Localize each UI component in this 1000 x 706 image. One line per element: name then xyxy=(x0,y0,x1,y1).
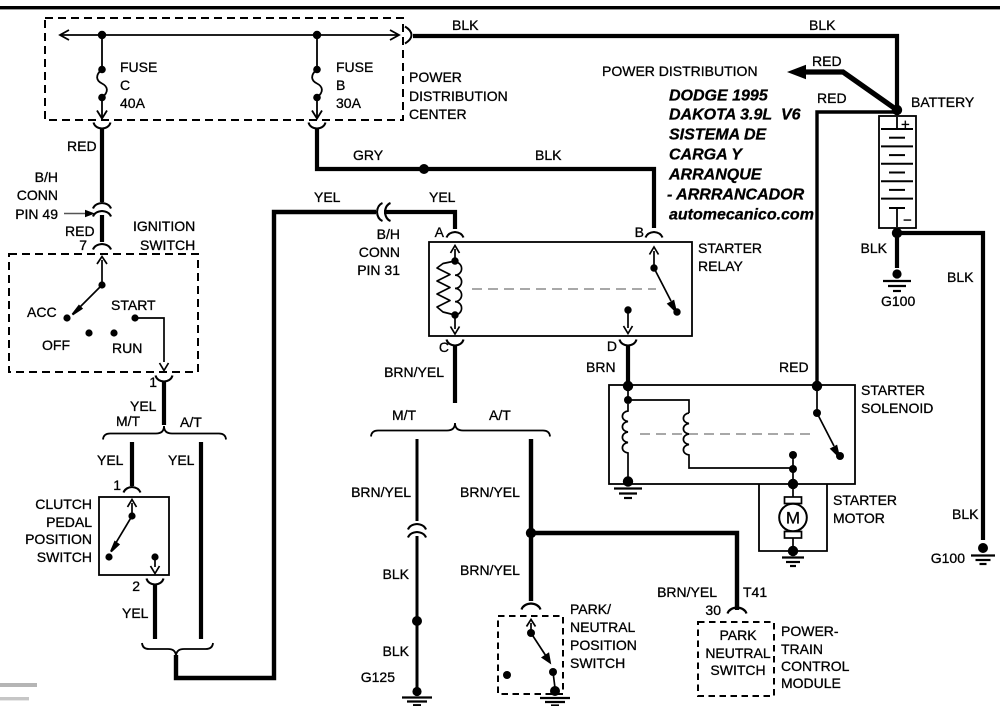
ground G100 right xyxy=(971,543,995,564)
clutch switch internals xyxy=(114,500,160,574)
svg-text:B/H: B/H xyxy=(377,226,400,242)
ground G125 xyxy=(402,687,432,705)
svg-text:BLK: BLK xyxy=(952,506,979,522)
svg-text:RUN: RUN xyxy=(112,340,142,356)
svg-text:G125: G125 xyxy=(361,669,395,685)
wire BLK PDC to battery xyxy=(413,36,897,106)
svg-text:START: START xyxy=(111,297,156,313)
connector ignition pin 7 xyxy=(93,244,111,250)
node solenoid inner top xyxy=(624,396,632,404)
top border line xyxy=(0,6,1000,9)
relay coil arrows xyxy=(451,246,460,335)
svg-text:CONN: CONN xyxy=(17,187,58,203)
svg-text:C: C xyxy=(120,77,130,93)
svg-text:BLK: BLK xyxy=(383,643,410,659)
wire BLK battery to G100 xyxy=(895,237,899,268)
svg-text:POWER: POWER xyxy=(409,69,462,85)
svg-text:STARTER: STARTER xyxy=(861,382,925,398)
wire BLK M/T middle branch xyxy=(416,439,419,521)
wire YEL pin 2 down xyxy=(153,585,157,639)
svg-text:POSITION: POSITION xyxy=(25,531,92,547)
node fuse B tap xyxy=(313,31,321,39)
ground PNP switch xyxy=(540,686,570,706)
wire BRN/YEL relay pin C down xyxy=(453,345,457,403)
node solenoid output junction xyxy=(789,465,797,473)
svg-text:CONN: CONN xyxy=(359,244,400,260)
svg-text:BRN/YEL: BRN/YEL xyxy=(657,584,717,600)
node PNP pivot xyxy=(527,629,535,637)
node BRN entry xyxy=(623,381,633,391)
wire YEL A/T branch xyxy=(199,442,203,639)
svg-text:SOLENOID: SOLENOID xyxy=(861,400,933,416)
svg-text:BLK: BLK xyxy=(452,17,479,33)
starter relay box xyxy=(429,242,692,336)
arrow to PIN 49 xyxy=(64,213,86,215)
node solenoid contact xyxy=(789,451,797,459)
svg-text:DISTRIBUTION: DISTRIBUTION xyxy=(409,88,508,104)
svg-text:BRN/YEL: BRN/YEL xyxy=(351,484,411,500)
inductor solenoid coil 1 xyxy=(622,404,628,478)
fuse C 40A xyxy=(97,39,107,119)
relay arm arrowhead xyxy=(668,301,676,312)
node relay coil top xyxy=(451,257,458,264)
svg-text:BRN/YEL: BRN/YEL xyxy=(460,484,520,500)
svg-text:40A: 40A xyxy=(120,95,146,111)
connector relay pin B xyxy=(646,232,663,238)
node motor ground xyxy=(788,546,798,556)
node START xyxy=(131,314,138,321)
svg-text:CENTER: CENTER xyxy=(409,106,467,122)
wire START to pin 1 xyxy=(135,318,164,362)
svg-text:SWITCH: SWITCH xyxy=(710,662,765,678)
relay switch arm xyxy=(624,247,672,334)
svg-text:DAKOTA 3.9L V6: DAKOTA 3.9L V6 xyxy=(669,107,801,124)
connector clutch pin 1 xyxy=(124,487,141,493)
svg-text:SWITCH: SWITCH xyxy=(570,655,625,671)
battery xyxy=(879,116,916,228)
svg-text:YEL: YEL xyxy=(314,189,341,205)
clutch pedal position switch box xyxy=(99,497,169,575)
svg-text:NEUTRAL: NEUTRAL xyxy=(570,619,636,635)
svg-text:D: D xyxy=(607,338,617,354)
wire BLK battery to right G100 xyxy=(900,233,983,540)
wire BRN/YEL junction to T41 xyxy=(531,533,737,610)
connector relay pin C xyxy=(447,340,464,346)
connector M/T inline xyxy=(408,524,426,538)
clutch arm arrowhead xyxy=(111,542,119,552)
motor M xyxy=(779,484,807,549)
solenoid switch xyxy=(793,386,834,484)
power distribution center box xyxy=(45,18,403,120)
svg-text:OFF: OFF xyxy=(42,337,70,353)
node clutch contact right xyxy=(151,553,158,560)
svg-text:BLK: BLK xyxy=(383,566,410,582)
node clutch contact left xyxy=(105,553,112,560)
solenoid arm arrowhead xyxy=(831,446,839,457)
svg-text:T41: T41 xyxy=(743,584,767,600)
svg-text:M/T: M/T xyxy=(116,413,141,429)
svg-text:NEUTRAL: NEUTRAL xyxy=(705,645,771,661)
connector B/H CONN PIN 31 xyxy=(377,203,391,221)
PNP switch internals xyxy=(527,620,556,689)
connector ignition pin 1 xyxy=(156,376,173,382)
svg-text:BLK: BLK xyxy=(861,240,888,256)
ground solenoid xyxy=(614,489,642,499)
park/neutral position switch box xyxy=(498,616,563,694)
svg-text:GRY: GRY xyxy=(353,147,384,163)
svg-text:MODULE: MODULE xyxy=(781,675,841,691)
svg-text:YEL: YEL xyxy=(130,398,157,414)
connector fuse C output xyxy=(94,123,111,129)
node A/T junction xyxy=(526,528,536,538)
wire solenoid internal top xyxy=(628,386,689,413)
svg-text:1: 1 xyxy=(149,374,157,390)
svg-text:RELAY: RELAY xyxy=(698,258,744,274)
brace M/T A/T split middle xyxy=(371,423,550,437)
wire YEL conn31 to relay pin A xyxy=(384,212,455,229)
svg-text:M/T: M/T xyxy=(392,407,417,423)
node solenoid output xyxy=(788,479,798,489)
node BLK splice xyxy=(412,616,422,626)
svg-text:YEL: YEL xyxy=(429,189,456,205)
svg-text:30: 30 xyxy=(705,602,721,618)
svg-text:FUSE: FUSE xyxy=(120,59,157,75)
node PNP contact right xyxy=(549,668,557,676)
wire RED fuse C down xyxy=(100,129,104,202)
svg-text:BRN/YEL: BRN/YEL xyxy=(384,364,444,380)
svg-text:RED: RED xyxy=(812,53,842,69)
svg-text:BLK: BLK xyxy=(809,17,836,33)
svg-text:STARTER: STARTER xyxy=(833,492,897,508)
svg-text:1: 1 xyxy=(113,477,121,493)
svg-text:POSITION: POSITION xyxy=(570,637,637,653)
svg-text:automecanico.com: automecanico.com xyxy=(669,207,814,224)
ground G100 battery xyxy=(883,269,911,291)
svg-text:A/T: A/T xyxy=(180,414,202,430)
connector relay pin A xyxy=(447,232,464,238)
svg-text:YEL: YEL xyxy=(122,605,149,621)
inductor solenoid coil 2 xyxy=(683,413,793,468)
connector B/H CONN PIN 49 xyxy=(93,203,111,217)
title block xyxy=(667,88,814,224)
node relay contact D xyxy=(624,306,631,313)
svg-text:+: + xyxy=(901,117,910,134)
svg-text:M: M xyxy=(786,509,800,528)
faint page marks bottom-left xyxy=(0,683,37,687)
node clutch pivot xyxy=(128,512,135,519)
node OFF xyxy=(85,329,92,336)
svg-text:PIN 31: PIN 31 xyxy=(357,262,400,278)
connector relay pin D xyxy=(620,340,637,346)
starter motor enclosure xyxy=(759,484,827,551)
svg-text:BRN/YEL: BRN/YEL xyxy=(460,562,520,578)
node RUN xyxy=(110,329,117,336)
node relay arm end xyxy=(673,308,680,315)
svg-text:7: 7 xyxy=(79,237,87,253)
svg-text:PIN 49: PIN 49 xyxy=(15,206,58,222)
switch arm arrowhead xyxy=(73,306,82,315)
node fuse C tap xyxy=(98,31,106,39)
svg-text:B: B xyxy=(635,224,644,240)
svg-text:CONTROL: CONTROL xyxy=(781,658,850,674)
wire YEL M/T branch xyxy=(130,442,134,486)
node solenoid pivot xyxy=(813,409,821,417)
wire GRY/BLK fuse B to relay pin B xyxy=(317,129,654,228)
bus wire xyxy=(60,30,399,40)
connector PCM pin 30 xyxy=(728,608,747,614)
svg-text:ARRANQUE: ARRANQUE xyxy=(668,167,763,184)
svg-text:A: A xyxy=(435,224,445,240)
wire RED conn to ignition switch xyxy=(100,215,104,242)
connector clutch pin 2 xyxy=(147,579,164,585)
solenoid dashed link xyxy=(640,433,812,435)
node relay coil bottom xyxy=(451,311,458,318)
node PNP contact left xyxy=(503,671,511,679)
svg-text:DODGE 1995: DODGE 1995 xyxy=(669,88,769,105)
svg-text:B: B xyxy=(336,77,345,93)
svg-text:SWITCH: SWITCH xyxy=(140,237,195,253)
svg-text:PARK/: PARK/ xyxy=(570,601,611,617)
svg-text:ACC: ACC xyxy=(27,304,57,320)
svg-text:RED: RED xyxy=(779,359,809,375)
svg-text:C: C xyxy=(439,339,449,355)
svg-text:POWER-: POWER- xyxy=(781,623,839,639)
ignition switch box xyxy=(9,254,198,372)
node solenoid coil ground xyxy=(623,476,633,486)
powertrain control module box xyxy=(698,622,774,696)
resistor relay coil left xyxy=(437,261,455,315)
node battery negative xyxy=(892,228,902,238)
relay dashed link xyxy=(472,288,656,290)
ground starter motor xyxy=(782,558,804,567)
inductor relay coil right xyxy=(455,262,462,315)
ignition switch internals xyxy=(76,257,107,312)
connector PDC output xyxy=(405,27,412,44)
PNP arm arrowhead xyxy=(543,654,550,663)
svg-text:YEL: YEL xyxy=(168,452,195,468)
svg-text:STARTER: STARTER xyxy=(698,240,762,256)
svg-text:RED: RED xyxy=(67,138,97,154)
svg-text:BATTERY: BATTERY xyxy=(911,94,975,110)
svg-text:RED: RED xyxy=(817,90,847,106)
svg-text:SWITCH: SWITCH xyxy=(37,549,92,565)
wire YEL pin1 down xyxy=(162,382,166,425)
svg-text:IGNITION: IGNITION xyxy=(133,218,195,234)
wire BLK to G125 xyxy=(416,536,419,688)
svg-text:BLK: BLK xyxy=(947,269,974,285)
svg-text:PARK: PARK xyxy=(719,627,757,643)
svg-text:PEDAL: PEDAL xyxy=(46,514,92,530)
wire BRN/YEL A/T middle branch xyxy=(529,439,533,601)
svg-text:CARGA Y: CARGA Y xyxy=(669,147,743,164)
svg-text:TRAIN: TRAIN xyxy=(781,641,823,657)
node ignition pivot xyxy=(98,281,105,288)
svg-text:FUSE: FUSE xyxy=(336,59,373,75)
connector PNP switch input xyxy=(522,604,541,610)
svg-text:B/H: B/H xyxy=(35,169,58,185)
svg-text:−: − xyxy=(903,212,912,229)
wire RED battery to solenoid xyxy=(817,112,894,384)
brace merge M/T A/T xyxy=(142,643,213,657)
connector fuse B output xyxy=(309,123,326,129)
svg-text:- ARRRANCADOR: - ARRRANCADOR xyxy=(667,187,805,204)
svg-text:G100: G100 xyxy=(881,293,915,309)
svg-text:MOTOR: MOTOR xyxy=(833,510,885,526)
svg-text:BRN: BRN xyxy=(586,359,616,375)
node solenoid arm end xyxy=(836,452,844,460)
node ACC xyxy=(63,314,70,321)
node splice GRY-BLK xyxy=(419,164,429,174)
fuse B 30A xyxy=(312,39,322,119)
node relay pivot B xyxy=(650,264,657,271)
svg-text:G100: G100 xyxy=(931,550,965,566)
svg-text:SISTEMA DE: SISTEMA DE xyxy=(669,127,768,144)
svg-text:YEL: YEL xyxy=(97,452,124,468)
brace M/T A/T split left xyxy=(103,426,226,440)
svg-text:A/T: A/T xyxy=(489,407,511,423)
wire YEL merge to B/H conn xyxy=(176,212,376,678)
svg-text:BLK: BLK xyxy=(535,147,562,163)
node battery positive xyxy=(892,105,902,115)
svg-text:CLUTCH: CLUTCH xyxy=(35,496,92,512)
arrow POWER DISTRIBUTION xyxy=(787,65,806,79)
node solenoid RED entry xyxy=(812,381,822,391)
starter solenoid box xyxy=(609,385,855,484)
svg-text:POWER DISTRIBUTION: POWER DISTRIBUTION xyxy=(602,63,758,79)
svg-text:30A: 30A xyxy=(336,95,362,111)
wire BRN pin D to solenoid xyxy=(626,346,630,383)
svg-text:2: 2 xyxy=(132,578,140,594)
